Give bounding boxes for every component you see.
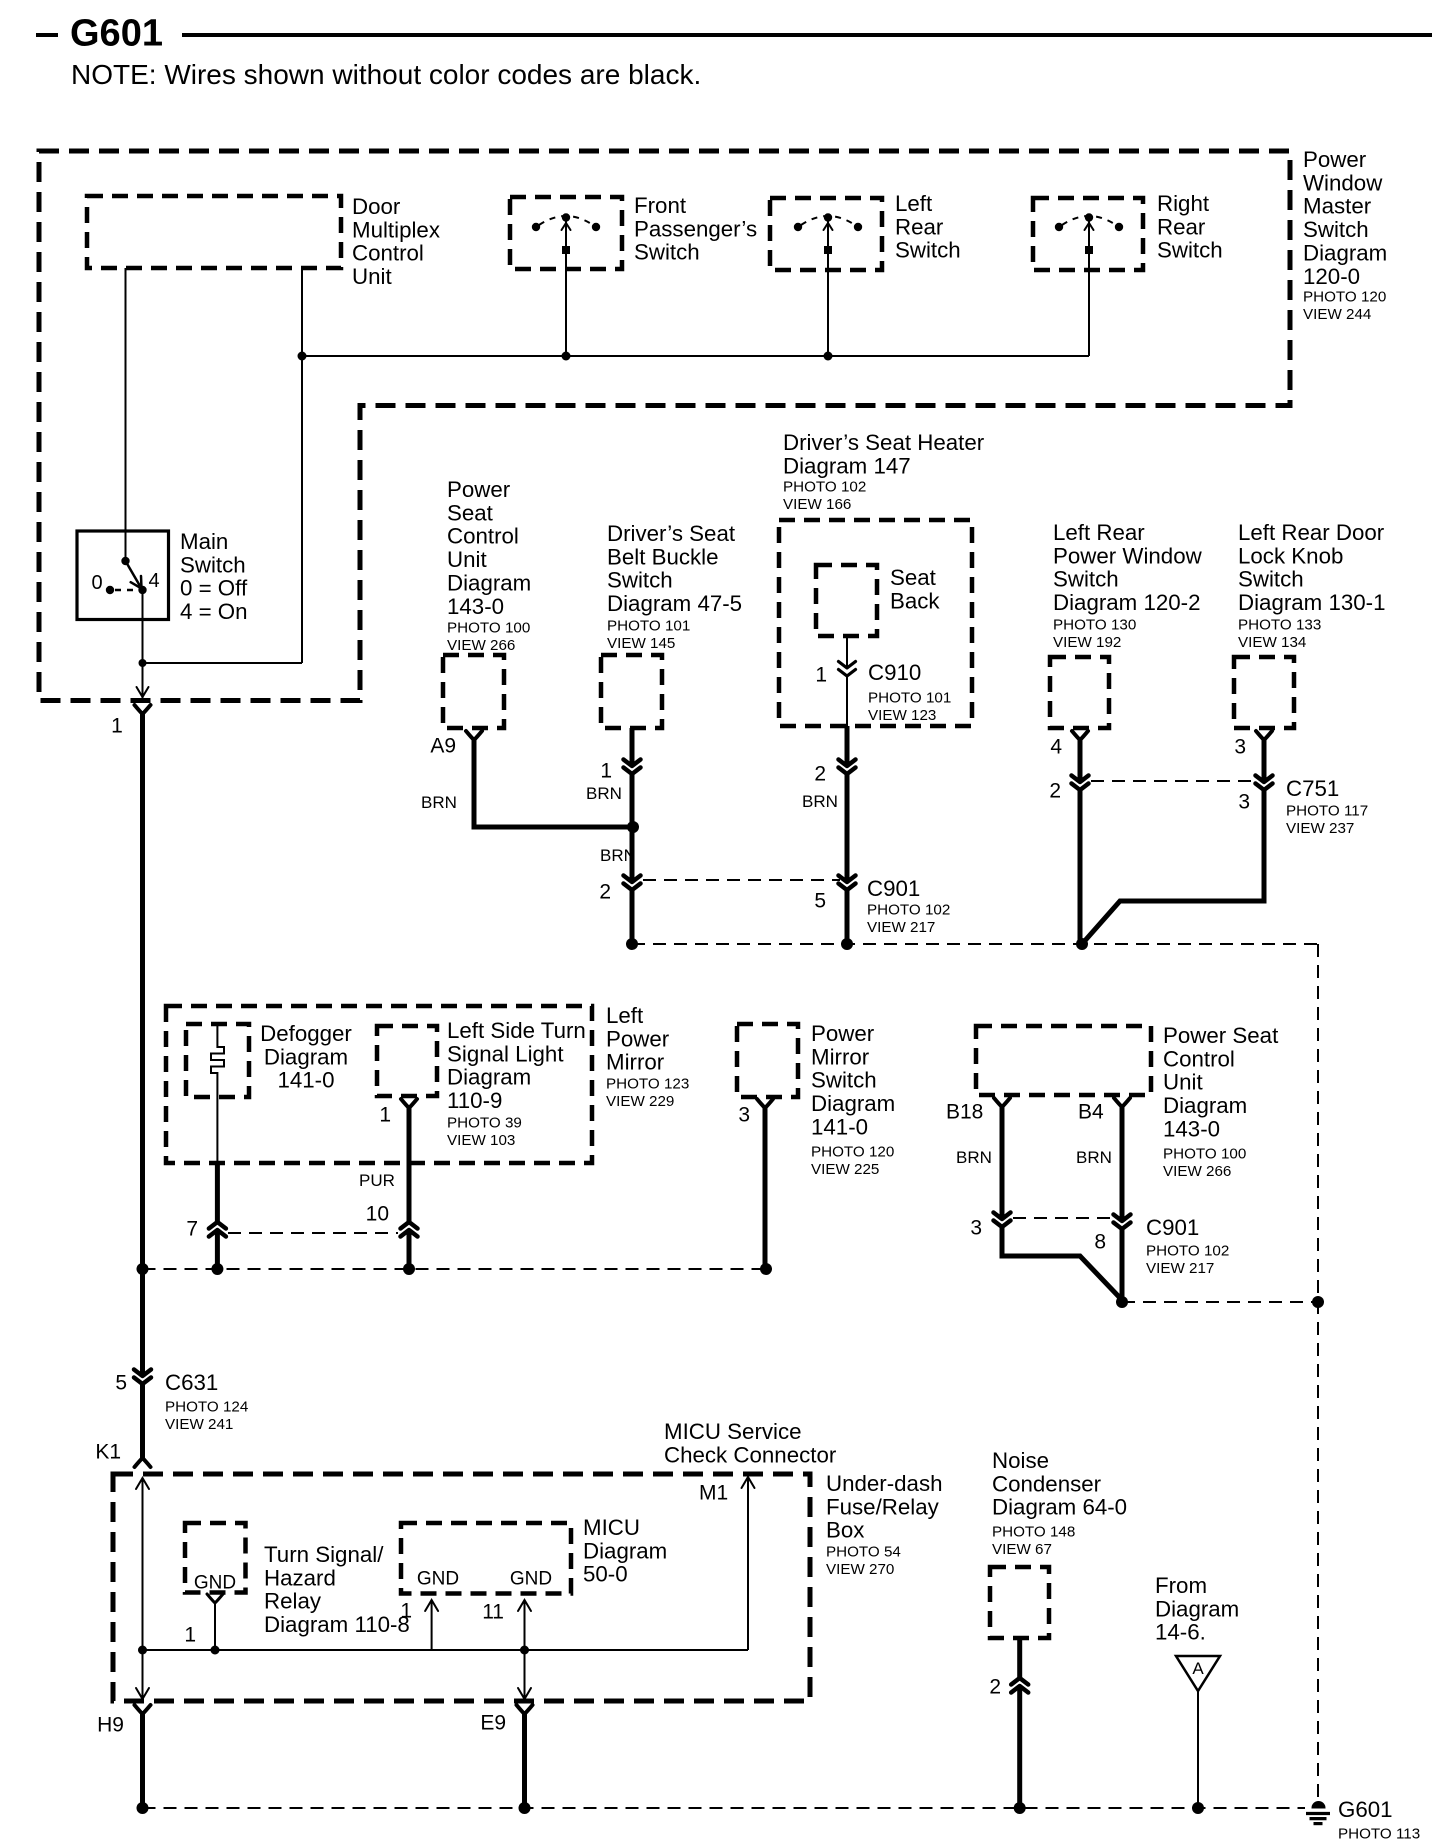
svg-text:BRN: BRN bbox=[802, 792, 838, 811]
svg-text:Diagram 64-0: Diagram 64-0 bbox=[992, 1495, 1127, 1520]
svg-text:141-0: 141-0 bbox=[277, 1068, 334, 1093]
svg-text:Switch: Switch bbox=[1157, 238, 1223, 263]
svg-text:2: 2 bbox=[1049, 780, 1061, 803]
left side turn signal light box bbox=[377, 1026, 437, 1096]
junction bbox=[760, 1263, 772, 1275]
wire K1 to ground bus (thin) bbox=[142, 1478, 144, 1699]
main switch arm bbox=[126, 561, 141, 586]
left power mirror box bbox=[166, 1006, 592, 1163]
terminal B4 flare bbox=[1114, 1098, 1130, 1107]
svg-text:0 = Off: 0 = Off bbox=[180, 576, 248, 601]
node A triangle bbox=[1176, 1656, 1220, 1691]
svg-text:141-0: 141-0 bbox=[811, 1115, 868, 1140]
junction bbox=[1076, 938, 1088, 950]
seat back box bbox=[816, 565, 877, 636]
door multiplex control unit box bbox=[87, 196, 341, 268]
svg-text:Left: Left bbox=[895, 191, 933, 216]
svg-text:Driver’s Seat: Driver’s Seat bbox=[607, 521, 736, 546]
svg-text:8: 8 bbox=[1094, 1231, 1106, 1254]
svg-text:Power: Power bbox=[447, 477, 511, 502]
svg-text:1: 1 bbox=[184, 1624, 196, 1647]
svg-text:PHOTO 101: PHOTO 101 bbox=[607, 617, 690, 634]
connector pin 2 chevron bbox=[1017, 1678, 1023, 1686]
connector C910 pin 1 chevron bbox=[844, 668, 850, 676]
svg-text:Power Window: Power Window bbox=[1053, 543, 1203, 568]
svg-text:120-0: 120-0 bbox=[1303, 264, 1360, 289]
svg-text:PHOTO 133: PHOTO 133 bbox=[1238, 616, 1321, 633]
svg-text:Unit: Unit bbox=[447, 547, 487, 572]
svg-text:Seat: Seat bbox=[447, 500, 494, 525]
svg-text:Switch: Switch bbox=[1053, 567, 1119, 592]
svg-text:G601: G601 bbox=[1338, 1797, 1393, 1822]
ground bus inside box (thin) bbox=[143, 1649, 749, 1651]
svg-text:110-9: 110-9 bbox=[447, 1088, 502, 1113]
svg-text:BRN: BRN bbox=[1076, 1148, 1112, 1167]
wire B18 (thick) bbox=[1002, 1105, 1122, 1300]
svg-text:C910: C910 bbox=[868, 660, 921, 685]
svg-text:VIEW 123: VIEW 123 bbox=[868, 707, 936, 724]
wire front passenger switch down bbox=[565, 252, 567, 356]
left rear switch box bbox=[770, 198, 882, 270]
turn signal/hazard relay box bbox=[185, 1523, 246, 1593]
wire main switch to second output bbox=[143, 662, 303, 664]
junction bbox=[1312, 1296, 1324, 1308]
wire belt buckle (thick) bbox=[630, 728, 635, 944]
svg-text:PUR: PUR bbox=[359, 1171, 395, 1190]
svg-text:VIEW 217: VIEW 217 bbox=[867, 919, 935, 936]
connector C901 dashed link bbox=[643, 879, 840, 881]
svg-text:2: 2 bbox=[599, 881, 611, 904]
junction bbox=[298, 352, 307, 361]
svg-text:Relay: Relay bbox=[264, 1589, 322, 1614]
svg-text:C751: C751 bbox=[1286, 776, 1339, 801]
svg-text:MICU Service: MICU Service bbox=[664, 1419, 802, 1444]
svg-text:K1: K1 bbox=[95, 1441, 121, 1464]
svg-text:3: 3 bbox=[1238, 791, 1250, 814]
svg-text:50-0: 50-0 bbox=[583, 1562, 628, 1587]
wire left rear power window (thick) bbox=[1078, 738, 1083, 946]
svg-text:Lock Knob: Lock Knob bbox=[1238, 543, 1343, 568]
svg-text:VIEW 270: VIEW 270 bbox=[826, 1561, 894, 1578]
svg-text:1: 1 bbox=[400, 1600, 412, 1623]
svg-text:PHOTO 102: PHOTO 102 bbox=[783, 478, 866, 495]
svg-text:A: A bbox=[1192, 1659, 1204, 1678]
terminal 3 flare bbox=[757, 1099, 773, 1108]
junction bbox=[137, 1263, 149, 1275]
left rear door lock knob switch box bbox=[1234, 657, 1294, 728]
svg-text:VIEW 166: VIEW 166 bbox=[783, 496, 851, 513]
svg-text:Back: Back bbox=[890, 588, 940, 613]
driver's seat belt buckle switch box bbox=[601, 655, 662, 728]
terminal 1 flare bbox=[401, 1099, 417, 1108]
svg-text:Switch: Switch bbox=[895, 238, 961, 263]
ground bus 1 dashed bbox=[632, 943, 1318, 945]
svg-text:3: 3 bbox=[1234, 736, 1246, 759]
connector C901 dashed link 2 bbox=[1013, 1217, 1111, 1219]
arrow exiting box bottom bbox=[136, 1688, 149, 1699]
svg-text:VIEW 134: VIEW 134 bbox=[1238, 634, 1306, 651]
svg-text:11: 11 bbox=[482, 1601, 504, 1624]
svg-text:GND: GND bbox=[194, 1573, 236, 1594]
ground bus right dashed vertical bbox=[1317, 944, 1319, 1801]
svg-text:Signal Light: Signal Light bbox=[447, 1041, 564, 1066]
svg-text:VIEW 237: VIEW 237 bbox=[1286, 820, 1354, 837]
svg-text:Switch: Switch bbox=[1303, 217, 1369, 242]
junction bbox=[824, 352, 833, 361]
svg-text:PHOTO 120: PHOTO 120 bbox=[1303, 288, 1386, 305]
connector pin 7 chevron bbox=[214, 1222, 220, 1230]
svg-text:VIEW 217: VIEW 217 bbox=[1146, 1260, 1214, 1277]
junction bbox=[520, 1646, 529, 1655]
wire B4 (thick) bbox=[1120, 1105, 1125, 1302]
junction bbox=[211, 1263, 223, 1275]
wire M1 service check bbox=[747, 1477, 749, 1650]
right rear switch box bbox=[1033, 198, 1143, 270]
svg-text:1: 1 bbox=[111, 715, 123, 738]
svg-text:Diagram 130-1: Diagram 130-1 bbox=[1238, 590, 1385, 615]
svg-text:Check Connector: Check Connector bbox=[664, 1442, 837, 1467]
power mirror switch box bbox=[737, 1024, 798, 1097]
svg-text:2: 2 bbox=[989, 1676, 1001, 1699]
wire door multiplex second output bbox=[301, 268, 303, 663]
svg-text:BRN: BRN bbox=[421, 793, 457, 812]
junction bbox=[1192, 1802, 1204, 1814]
svg-text:Diagram: Diagram bbox=[1303, 241, 1387, 266]
svg-text:Diagram: Diagram bbox=[264, 1044, 348, 1069]
svg-text:PHOTO 100: PHOTO 100 bbox=[1163, 1145, 1246, 1162]
svg-text:Door: Door bbox=[352, 194, 401, 219]
svg-text:14-6.: 14-6. bbox=[1155, 1620, 1206, 1645]
svg-text:2: 2 bbox=[814, 763, 826, 786]
svg-text:Belt Buckle: Belt Buckle bbox=[607, 544, 719, 569]
svg-text:Diagram: Diagram bbox=[447, 571, 531, 596]
connector C751 pin 2 chevron bbox=[1077, 782, 1083, 790]
svg-text:Rear: Rear bbox=[1157, 214, 1206, 239]
svg-text:Front: Front bbox=[634, 193, 687, 218]
svg-text:PHOTO 101: PHOTO 101 bbox=[868, 689, 951, 706]
junction bbox=[211, 1646, 220, 1655]
main switch dashed off position bbox=[115, 589, 137, 592]
svg-text:GND: GND bbox=[510, 1569, 552, 1590]
power seat control unit box 2 bbox=[976, 1026, 1151, 1095]
connector C751 pin 3 chevron bbox=[1261, 782, 1267, 790]
svg-text:143-0: 143-0 bbox=[1163, 1117, 1220, 1142]
svg-text:VIEW 225: VIEW 225 bbox=[811, 1161, 879, 1178]
svg-text:Control: Control bbox=[1163, 1046, 1235, 1071]
noise condenser box bbox=[990, 1567, 1049, 1638]
svg-text:PHOTO 102: PHOTO 102 bbox=[1146, 1242, 1229, 1259]
terminal H9 flare bbox=[135, 1705, 151, 1714]
svg-text:Switch: Switch bbox=[1238, 567, 1304, 592]
driver's seat heater box bbox=[779, 520, 972, 726]
svg-text:Driver’s Seat Heater: Driver’s Seat Heater bbox=[783, 430, 985, 455]
wire A9 (thick) bbox=[474, 738, 635, 827]
svg-text:1: 1 bbox=[600, 760, 612, 783]
ground bus 2 dashed bbox=[143, 1268, 767, 1270]
connector pin 10 chevron bbox=[406, 1222, 412, 1230]
svg-text:PHOTO 124: PHOTO 124 bbox=[165, 1398, 248, 1415]
svg-text:VIEW 244: VIEW 244 bbox=[1303, 306, 1371, 323]
C901 to right bus dashed bbox=[1122, 1301, 1318, 1303]
svg-text:B18: B18 bbox=[946, 1101, 983, 1124]
svg-text:3: 3 bbox=[970, 1217, 982, 1240]
svg-text:PHOTO 113: PHOTO 113 bbox=[1338, 1825, 1420, 1842]
connector pin 1 chevron bbox=[629, 766, 635, 774]
wire left rear switch down bbox=[827, 252, 829, 356]
MICU box bbox=[401, 1523, 571, 1594]
svg-text:Power: Power bbox=[811, 1021, 875, 1046]
svg-text:4 = On: 4 = On bbox=[180, 599, 248, 624]
arrow exiting box bottom 2 bbox=[518, 1688, 531, 1699]
front passenger's switch box bbox=[510, 197, 622, 269]
svg-text:Diagram: Diagram bbox=[447, 1065, 531, 1090]
svg-text:PHOTO 130: PHOTO 130 bbox=[1053, 616, 1136, 633]
svg-text:BRN: BRN bbox=[956, 1148, 992, 1167]
svg-text:Switch: Switch bbox=[180, 552, 246, 577]
svg-text:Switch: Switch bbox=[634, 240, 700, 265]
junction bbox=[562, 352, 571, 361]
svg-text:Multiplex: Multiplex bbox=[352, 217, 440, 242]
arrow into MICU GND 2 bbox=[518, 1600, 531, 1611]
connector C631 pin 5 chevron bbox=[139, 1376, 145, 1384]
svg-text:Left Rear: Left Rear bbox=[1053, 520, 1145, 545]
svg-text:5: 5 bbox=[115, 1372, 127, 1395]
wire seat back down (thin) bbox=[846, 636, 848, 726]
svg-text:G601: G601 bbox=[70, 13, 163, 55]
wire door lock knob (thick) bbox=[1082, 738, 1264, 944]
svg-text:10: 10 bbox=[366, 1203, 389, 1226]
svg-text:A9: A9 bbox=[430, 735, 456, 758]
svg-text:VIEW 266: VIEW 266 bbox=[447, 637, 515, 654]
bottom ground bus dashed bbox=[143, 1807, 1306, 1809]
ground symbol G601 bbox=[1312, 1802, 1325, 1808]
svg-text:VIEW 241: VIEW 241 bbox=[165, 1416, 233, 1433]
svg-text:3: 3 bbox=[738, 1104, 750, 1127]
terminal K1 flare bbox=[135, 1458, 151, 1467]
svg-text:Passenger’s: Passenger’s bbox=[634, 216, 757, 241]
svg-text:Diagram 120-2: Diagram 120-2 bbox=[1053, 590, 1200, 615]
wire main switch output bbox=[142, 592, 144, 698]
connector 7-10 dashed link bbox=[228, 1232, 398, 1234]
connector C751 dashed link bbox=[1091, 780, 1253, 782]
svg-text:PHOTO 54: PHOTO 54 bbox=[826, 1543, 901, 1560]
connector pin 2 chevron bbox=[844, 766, 850, 774]
terminal 4 flare bbox=[1072, 731, 1088, 740]
wire MICU GND 2 bbox=[524, 1600, 526, 1699]
power window master switch box (dashed outline) bbox=[39, 151, 1290, 701]
junction bbox=[1116, 1296, 1128, 1308]
svg-text:Box: Box bbox=[826, 1518, 864, 1543]
arrow into M1 bbox=[742, 1477, 755, 1488]
junction bbox=[1014, 1802, 1026, 1814]
svg-text:Switch: Switch bbox=[811, 1068, 877, 1093]
svg-text:Hazard: Hazard bbox=[264, 1565, 336, 1590]
connector pin 1 flare bbox=[135, 705, 151, 714]
svg-text:Unit: Unit bbox=[352, 264, 392, 289]
svg-text:PHOTO 148: PHOTO 148 bbox=[992, 1523, 1075, 1540]
svg-text:VIEW 229: VIEW 229 bbox=[606, 1093, 674, 1110]
main switch pole 0 dot bbox=[106, 586, 114, 594]
junction bbox=[841, 938, 853, 950]
svg-text:Power: Power bbox=[606, 1026, 670, 1051]
svg-text:VIEW 266: VIEW 266 bbox=[1163, 1163, 1231, 1180]
svg-text:PHOTO 102: PHOTO 102 bbox=[867, 901, 950, 918]
svg-text:PHOTO 120: PHOTO 120 bbox=[811, 1143, 894, 1160]
svg-text:0: 0 bbox=[91, 572, 102, 594]
svg-text:M1: M1 bbox=[699, 1482, 728, 1505]
svg-text:Diagram 110-8: Diagram 110-8 bbox=[264, 1612, 410, 1637]
left rear switch symbol bbox=[824, 213, 832, 221]
svg-text:E9: E9 bbox=[480, 1712, 506, 1735]
defogger box bbox=[186, 1024, 249, 1097]
svg-text:Control: Control bbox=[447, 524, 519, 549]
svg-text:VIEW 67: VIEW 67 bbox=[992, 1541, 1052, 1558]
svg-text:1: 1 bbox=[379, 1104, 391, 1127]
wire relay GND down bbox=[214, 1601, 216, 1650]
svg-text:Condenser: Condenser bbox=[992, 1471, 1102, 1496]
connector C901 pin 8 chevron bbox=[1119, 1221, 1125, 1229]
svg-text:Diagram: Diagram bbox=[1155, 1596, 1239, 1621]
arrow exiting master switch box bbox=[137, 687, 149, 697]
svg-text:Switch: Switch bbox=[607, 568, 673, 593]
svg-text:Window: Window bbox=[1303, 170, 1383, 195]
svg-text:Control: Control bbox=[352, 241, 424, 266]
wire door multiplex to main switch bbox=[125, 268, 127, 561]
svg-text:7: 7 bbox=[186, 1218, 198, 1241]
wire E9 (thick) bbox=[522, 1712, 527, 1808]
svg-text:4: 4 bbox=[1050, 736, 1062, 759]
svg-text:NOTE: Wires shown without colo: NOTE: Wires shown without color codes ar… bbox=[71, 59, 701, 90]
svg-text:Defogger: Defogger bbox=[260, 1021, 352, 1046]
svg-text:Diagram: Diagram bbox=[1163, 1093, 1247, 1118]
svg-text:Diagram 147: Diagram 147 bbox=[783, 453, 911, 478]
terminal A9 flare bbox=[466, 731, 482, 740]
svg-text:1: 1 bbox=[815, 664, 827, 687]
right rear switch symbol bbox=[1085, 213, 1093, 221]
junction bbox=[138, 1646, 147, 1655]
relay GND flare bbox=[207, 1594, 223, 1603]
svg-text:Power Seat: Power Seat bbox=[1163, 1023, 1279, 1048]
wire horizontal bus in master switch box bbox=[302, 355, 1089, 357]
svg-text:Main: Main bbox=[180, 529, 228, 554]
main switch box bbox=[77, 531, 169, 620]
svg-text:PHOTO 117: PHOTO 117 bbox=[1286, 802, 1368, 819]
svg-text:Mirror: Mirror bbox=[811, 1044, 870, 1069]
svg-text:Diagram: Diagram bbox=[583, 1538, 667, 1563]
wire defogger down (thick) bbox=[215, 1163, 220, 1269]
connector C901 pin 5 chevron bbox=[844, 882, 850, 890]
svg-text:GND: GND bbox=[417, 1569, 459, 1590]
svg-text:BRN: BRN bbox=[600, 846, 636, 865]
terminal 3 flare bbox=[1256, 731, 1272, 740]
junction bbox=[403, 1263, 415, 1275]
svg-text:Left Rear Door: Left Rear Door bbox=[1238, 520, 1385, 545]
svg-text:VIEW 192: VIEW 192 bbox=[1053, 634, 1121, 651]
svg-text:Under-dash: Under-dash bbox=[826, 1471, 943, 1496]
svg-text:Fuse/Relay: Fuse/Relay bbox=[826, 1494, 940, 1519]
node G601 header dash bbox=[36, 33, 58, 37]
wire from diagram A bbox=[1197, 1691, 1199, 1808]
svg-text:B4: B4 bbox=[1078, 1101, 1104, 1124]
junction bbox=[626, 938, 638, 950]
arrow K1 entering box bbox=[136, 1478, 149, 1489]
wire seat heater (thick) bbox=[845, 726, 850, 944]
svg-text:MICU: MICU bbox=[583, 1515, 640, 1540]
wire defogger down (thin) bbox=[216, 1097, 218, 1163]
svg-text:Noise: Noise bbox=[992, 1448, 1049, 1473]
left rear power window switch box bbox=[1050, 657, 1109, 728]
terminal E9 flare bbox=[517, 1705, 533, 1714]
svg-text:VIEW 145: VIEW 145 bbox=[607, 635, 675, 652]
header rule bbox=[182, 33, 1432, 37]
main switch pole 4 dot bbox=[138, 586, 146, 594]
junction bbox=[627, 821, 639, 833]
svg-text:Power: Power bbox=[1303, 147, 1367, 172]
svg-text:Left: Left bbox=[606, 1003, 644, 1028]
svg-text:143-0: 143-0 bbox=[447, 594, 504, 619]
svg-text:BRN: BRN bbox=[586, 784, 622, 803]
junction bbox=[137, 1802, 149, 1814]
wire right rear switch down bbox=[1088, 252, 1090, 356]
svg-text:5: 5 bbox=[814, 890, 826, 913]
svg-text:Right: Right bbox=[1157, 191, 1210, 216]
svg-text:PHOTO 123: PHOTO 123 bbox=[606, 1075, 689, 1092]
terminal B18 flare bbox=[994, 1098, 1010, 1107]
svg-text:PHOTO 100: PHOTO 100 bbox=[447, 619, 530, 636]
svg-text:Mirror: Mirror bbox=[606, 1050, 665, 1075]
svg-text:PHOTO 39: PHOTO 39 bbox=[447, 1114, 522, 1131]
svg-text:Turn Signal/: Turn Signal/ bbox=[264, 1542, 384, 1567]
svg-text:VIEW 103: VIEW 103 bbox=[447, 1132, 515, 1149]
wire main ground trunk (thick) bbox=[140, 712, 145, 1458]
svg-text:C631: C631 bbox=[165, 1370, 218, 1395]
svg-text:Diagram: Diagram bbox=[811, 1091, 895, 1116]
connector C901 pin 3 chevron bbox=[999, 1219, 1005, 1227]
front passenger's switch symbol bbox=[562, 213, 570, 221]
svg-text:4: 4 bbox=[148, 570, 159, 592]
svg-text:Rear: Rear bbox=[895, 214, 944, 239]
main switch contact dot bbox=[121, 557, 129, 565]
wire MICU GND 1 bbox=[431, 1600, 433, 1650]
under-dash fuse/relay box (dashed) bbox=[113, 1474, 810, 1701]
junction bbox=[139, 659, 147, 667]
svg-text:H9: H9 bbox=[97, 1714, 124, 1737]
svg-text:C901: C901 bbox=[1146, 1215, 1199, 1240]
wire power mirror switch (thick) bbox=[763, 1106, 768, 1269]
power seat control unit box bbox=[443, 655, 504, 728]
defogger element bbox=[211, 1024, 224, 1097]
wire noise condenser (thick) bbox=[1017, 1638, 1022, 1808]
svg-text:Unit: Unit bbox=[1163, 1070, 1203, 1095]
wire turn signal light (thick) bbox=[407, 1106, 412, 1269]
junction bbox=[519, 1802, 531, 1814]
svg-text:Seat: Seat bbox=[890, 565, 937, 590]
svg-text:Master: Master bbox=[1303, 194, 1372, 219]
svg-text:From: From bbox=[1155, 1573, 1207, 1598]
svg-text:C901: C901 bbox=[867, 876, 920, 901]
wire H9 (thick) bbox=[140, 1712, 145, 1808]
svg-text:Left Side Turn: Left Side Turn bbox=[447, 1018, 586, 1043]
connector C901 pin 2 chevron bbox=[629, 882, 635, 890]
svg-text:Diagram 47-5: Diagram 47-5 bbox=[607, 591, 742, 616]
arrow into MICU GND 1 bbox=[425, 1600, 438, 1611]
